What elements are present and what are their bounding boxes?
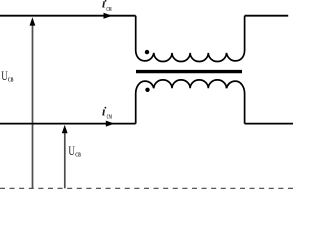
wire: vertical measurement line 2 with up arrow (x=64.7) [64, 133, 66, 189]
ground / reference plane (dashed) [0, 187, 293, 189]
arrow on top wire (current direction right) [104, 13, 113, 19]
transformer T1 secondary winding (bottom, 6 arcs) [136, 80, 245, 124]
svg-text:CM: CM [106, 7, 111, 13]
svg-text:CM: CM [107, 115, 112, 121]
wire: top-left horizontal from left edge to transformer primary lead [0, 15, 136, 17]
label i_CM (top, phasor dot) [105, 0, 107, 2]
svg-text:CB: CB [75, 153, 81, 159]
polarity dot primary [145, 50, 149, 54]
svg-text:ı: ı [102, 104, 106, 118]
transformer core [136, 70, 242, 73]
wire: top-right horizontal [245, 15, 289, 17]
arrow on bottom wire (current direction right) [106, 121, 115, 127]
svg-text:ı: ı [102, 0, 106, 11]
label i_CM (middle, phasor dot) [105, 107, 107, 109]
wire: bottom-left horizontal from left edge to transformer secondary lead [0, 123, 136, 125]
svg-text:U: U [68, 144, 75, 158]
transformer T1 primary winding (top, 6 arcs) [136, 16, 245, 62]
wire: vertical measurement line 1 with up arrow (x=32.4) [32, 25, 34, 188]
wire: bottom-right horizontal [245, 123, 293, 125]
svg-text:CB: CB [8, 77, 13, 83]
polarity dot secondary [145, 88, 149, 92]
